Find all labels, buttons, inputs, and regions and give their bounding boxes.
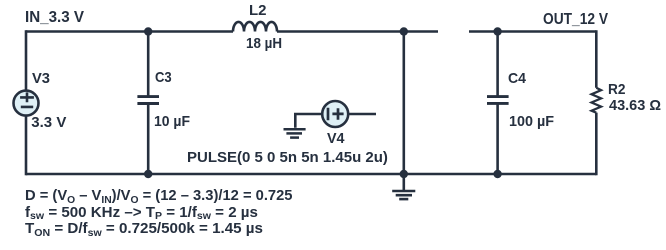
pulse source V4 <box>322 101 348 127</box>
label 18 µH <box>246 36 282 51</box>
label L2 <box>249 3 267 18</box>
ground: main <box>402 174 405 191</box>
label 100 µF <box>509 114 554 129</box>
node dot: C3 top <box>144 27 152 35</box>
wire: V4 minus lead to ground <box>295 114 322 128</box>
wire: bottom rail <box>26 173 596 176</box>
label V3 <box>32 71 50 86</box>
label C4 <box>508 71 526 86</box>
ground: V4 <box>284 128 306 131</box>
node dot: switch node bottom <box>400 170 408 178</box>
wire: top rail output segment <box>469 30 596 33</box>
wire: V4 plus lead stub <box>348 113 376 116</box>
label 3.3 V <box>31 115 66 130</box>
node dot: C4 top <box>493 27 501 35</box>
capacitor C3 <box>147 32 150 97</box>
voltage source V3 <box>14 91 39 116</box>
inductor L2 <box>233 22 277 32</box>
label IN_3.3 V <box>25 10 84 26</box>
wire: left rail upper <box>25 30 28 90</box>
label PULSE <box>187 150 388 165</box>
label V4 <box>327 131 344 146</box>
node dot: C4 bottom <box>493 170 501 178</box>
node dot: switch node top <box>400 27 408 35</box>
wire: top rail left segment <box>26 30 233 33</box>
node dot: C3 bottom <box>144 170 152 178</box>
formula line 2 <box>25 206 258 221</box>
wire: left rail lower <box>25 116 28 176</box>
formula line 1 <box>25 189 293 204</box>
label OUT_12 V <box>543 12 608 28</box>
label 10 µF <box>154 114 190 129</box>
wire: switch node vertical <box>402 32 405 175</box>
label R2 <box>608 82 625 97</box>
formula line 3 <box>25 222 263 237</box>
resistor R2 <box>595 30 598 175</box>
label 43.63 Ω <box>609 98 661 113</box>
label C3 <box>155 70 172 85</box>
capacitor C4 <box>496 32 499 97</box>
wire: top rail right of inductor to switch stub end <box>277 30 438 33</box>
